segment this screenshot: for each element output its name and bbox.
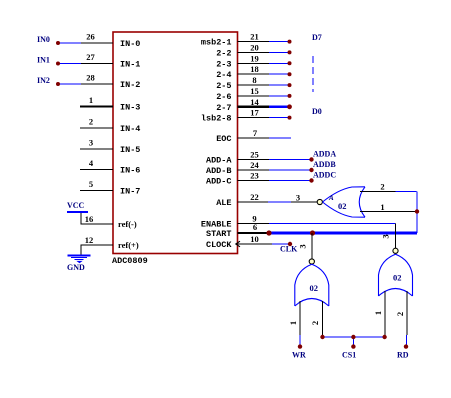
svg-text:2-3: 2-3 (216, 59, 231, 69)
svg-text:ADDA: ADDA (313, 150, 336, 159)
svg-text:WR: WR (292, 351, 306, 360)
svg-text:02: 02 (338, 201, 347, 211)
svg-text:27: 27 (86, 52, 95, 62)
svg-text:2-7: 2-7 (216, 103, 231, 113)
svg-text:ADDC: ADDC (313, 171, 336, 180)
svg-text:msb2-1: msb2-1 (201, 38, 232, 48)
svg-text:ADD-A: ADD-A (206, 156, 232, 166)
svg-text:EOC: EOC (216, 134, 231, 144)
svg-text:2-4: 2-4 (216, 70, 231, 80)
svg-text:26: 26 (86, 32, 95, 42)
svg-text:ENABLE: ENABLE (201, 220, 232, 230)
svg-text:A: A (328, 194, 334, 202)
svg-text:CLOCK: CLOCK (206, 240, 232, 250)
svg-text:10: 10 (250, 234, 259, 244)
svg-text:ADDB: ADDB (313, 160, 336, 169)
svg-text:IN-5: IN-5 (120, 145, 140, 155)
svg-text:2: 2 (380, 182, 384, 192)
svg-text:6: 6 (253, 222, 257, 232)
svg-text:CLK: CLK (280, 245, 298, 254)
svg-text:ref(+): ref(+) (118, 240, 139, 250)
svg-text:IN-0: IN-0 (120, 39, 140, 49)
svg-text:D7: D7 (312, 33, 322, 42)
svg-text:18: 18 (250, 64, 259, 74)
svg-text:1: 1 (373, 311, 383, 315)
svg-text:RD: RD (397, 351, 409, 360)
svg-text:IN-7: IN-7 (120, 187, 140, 197)
svg-text:12: 12 (85, 235, 94, 245)
svg-text:lsb2-8: lsb2-8 (201, 114, 232, 124)
svg-text:02: 02 (310, 283, 319, 293)
svg-text:3: 3 (89, 138, 93, 148)
svg-text:22: 22 (250, 192, 259, 202)
svg-text:1: 1 (89, 95, 93, 105)
svg-text:2: 2 (310, 321, 320, 325)
svg-text:14: 14 (250, 97, 259, 107)
svg-text:1: 1 (380, 202, 384, 212)
svg-text:3: 3 (298, 244, 308, 248)
svg-text:ADC0809: ADC0809 (112, 256, 148, 266)
svg-text:25: 25 (250, 150, 259, 160)
svg-text:CS1: CS1 (342, 351, 356, 360)
svg-text:2-2: 2-2 (216, 48, 231, 58)
svg-text:19: 19 (250, 53, 259, 63)
svg-text:IN-1: IN-1 (120, 60, 140, 70)
svg-text:5: 5 (89, 179, 93, 189)
svg-text:1: 1 (288, 321, 298, 325)
svg-text:21: 21 (250, 32, 259, 42)
svg-text:2-6: 2-6 (216, 92, 231, 102)
svg-text:VCC: VCC (67, 201, 85, 210)
svg-text:START: START (206, 229, 232, 239)
svg-text:3: 3 (296, 193, 300, 203)
svg-text:23: 23 (250, 171, 259, 181)
svg-text:8: 8 (252, 75, 256, 85)
svg-text:GND: GND (67, 263, 85, 272)
svg-text:D0: D0 (312, 107, 322, 116)
svg-text:02: 02 (393, 273, 402, 283)
svg-text:ADD-B: ADD-B (206, 166, 232, 176)
svg-text:20: 20 (250, 42, 259, 52)
svg-text:IN-6: IN-6 (120, 166, 140, 176)
svg-text:28: 28 (86, 73, 95, 83)
svg-text:2: 2 (89, 117, 93, 127)
svg-text:2: 2 (395, 312, 405, 316)
svg-text:16: 16 (85, 214, 94, 224)
svg-text:ALE: ALE (216, 198, 231, 208)
svg-text:ADD-C: ADD-C (206, 177, 232, 187)
svg-text:ref(-): ref(-) (118, 219, 137, 229)
svg-text:IN-2: IN-2 (120, 80, 140, 90)
svg-text:3: 3 (381, 234, 391, 238)
svg-text:IN1: IN1 (37, 56, 50, 65)
svg-text:IN-4: IN-4 (120, 124, 140, 134)
svg-text:IN2: IN2 (37, 76, 50, 85)
svg-text:2-5: 2-5 (216, 81, 231, 91)
svg-text:24: 24 (250, 160, 259, 170)
svg-text:17: 17 (250, 108, 259, 118)
svg-text:15: 15 (250, 86, 259, 96)
svg-text:IN-3: IN-3 (120, 103, 140, 113)
svg-text:IN0: IN0 (37, 35, 50, 44)
